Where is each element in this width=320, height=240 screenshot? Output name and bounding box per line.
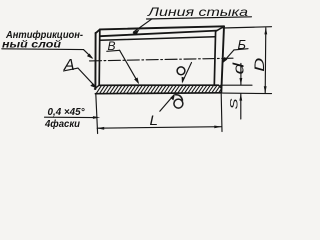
Д dimension top arrowhead — [264, 27, 267, 34]
Д dimension line — [264, 28, 267, 93]
centerline (dash-dot axis) — [90, 58, 234, 61]
band left end chamfer diagonal — [95, 85, 100, 89]
svg-text:D: D — [251, 58, 267, 72]
view label A underline — [64, 68, 79, 71]
arrowhead of A leader — [90, 83, 97, 88]
S dimension arrowhead — [239, 93, 242, 100]
hatching of antifriction layer section — [96, 85, 221, 93]
label B underline — [107, 50, 120, 51]
band right end chamfer diagonal — [219, 85, 222, 88]
L dimension right arrowhead — [214, 126, 221, 129]
arrowhead of chamfer note leader — [93, 116, 100, 119]
right chamfer line — [214, 31, 215, 86]
bore top edge line — [100, 37, 215, 41]
left extension line for L dimension — [96, 94, 98, 134]
bottom extension line for Д dimension — [223, 92, 272, 95]
svg-text:А: А — [63, 57, 75, 74]
leader from B to band top — [120, 50, 138, 82]
sectioned bottom wall band outline — [99, 84, 219, 86]
outer top edge of bushing — [100, 26, 224, 29]
label б — [174, 95, 183, 108]
bore-bottom extension line for d dimension — [222, 84, 253, 86]
d dimension arrowhead — [240, 78, 243, 85]
svg-text:0,4 ×45°: 0,4 ×45° — [48, 107, 86, 118]
arrowhead of б leader — [170, 94, 175, 101]
S dimension line — [240, 94, 242, 119]
underline of antifriction note — [2, 48, 84, 51]
label в (handwritten circle glyph) — [177, 67, 185, 75]
arrowhead of antifriction leader — [87, 54, 93, 60]
leader from A to bottom-left chamfer — [78, 68, 96, 87]
svg-text:S: S — [229, 98, 241, 110]
Д dimension bottom arrowhead — [264, 86, 267, 93]
joint line (линия стыка) — [100, 31, 217, 37]
svg-text:4фаски: 4фаски — [44, 118, 81, 130]
arrowhead of B leader — [134, 78, 139, 85]
right extension line for L dimension — [220, 94, 223, 132]
arrowhead of Б leader — [222, 57, 228, 64]
arrowhead of в leader — [182, 77, 185, 84]
top-right chamfer corner diagonal — [216, 27, 224, 32]
svg-text:Линия стыка: Линия стыка — [147, 5, 249, 19]
top-left chamfer corner diagonal — [96, 29, 100, 33]
leader from б to band bottom — [160, 95, 174, 111]
label "Линия стыка" underline — [147, 17, 252, 19]
L dimension line — [97, 127, 221, 129]
svg-text:ный слой: ный слой — [2, 39, 62, 50]
svg-text:d: d — [231, 62, 248, 74]
chamfer note fraction bar with leader arrow — [45, 116, 95, 118]
label Б underline — [234, 49, 248, 50]
left chamfer line — [98, 30, 101, 85]
leader from antifriction note to left edge — [84, 50, 93, 58]
left outer edge — [94, 33, 96, 89]
arrowhead of joint-line leader — [132, 29, 139, 35]
svg-text:Б: Б — [238, 37, 247, 52]
leader from Линия стыка to joint line — [134, 19, 152, 32]
leader from Б to right edge — [223, 50, 234, 62]
svg-text:L: L — [150, 113, 159, 128]
leader from в to bore surface — [183, 63, 192, 82]
right outer edge — [221, 26, 224, 92]
L dimension left arrowhead — [97, 127, 104, 130]
d dimension line — [240, 64, 242, 85]
svg-text:В: В — [108, 39, 116, 53]
top extension line for Д dimension — [223, 27, 272, 28]
